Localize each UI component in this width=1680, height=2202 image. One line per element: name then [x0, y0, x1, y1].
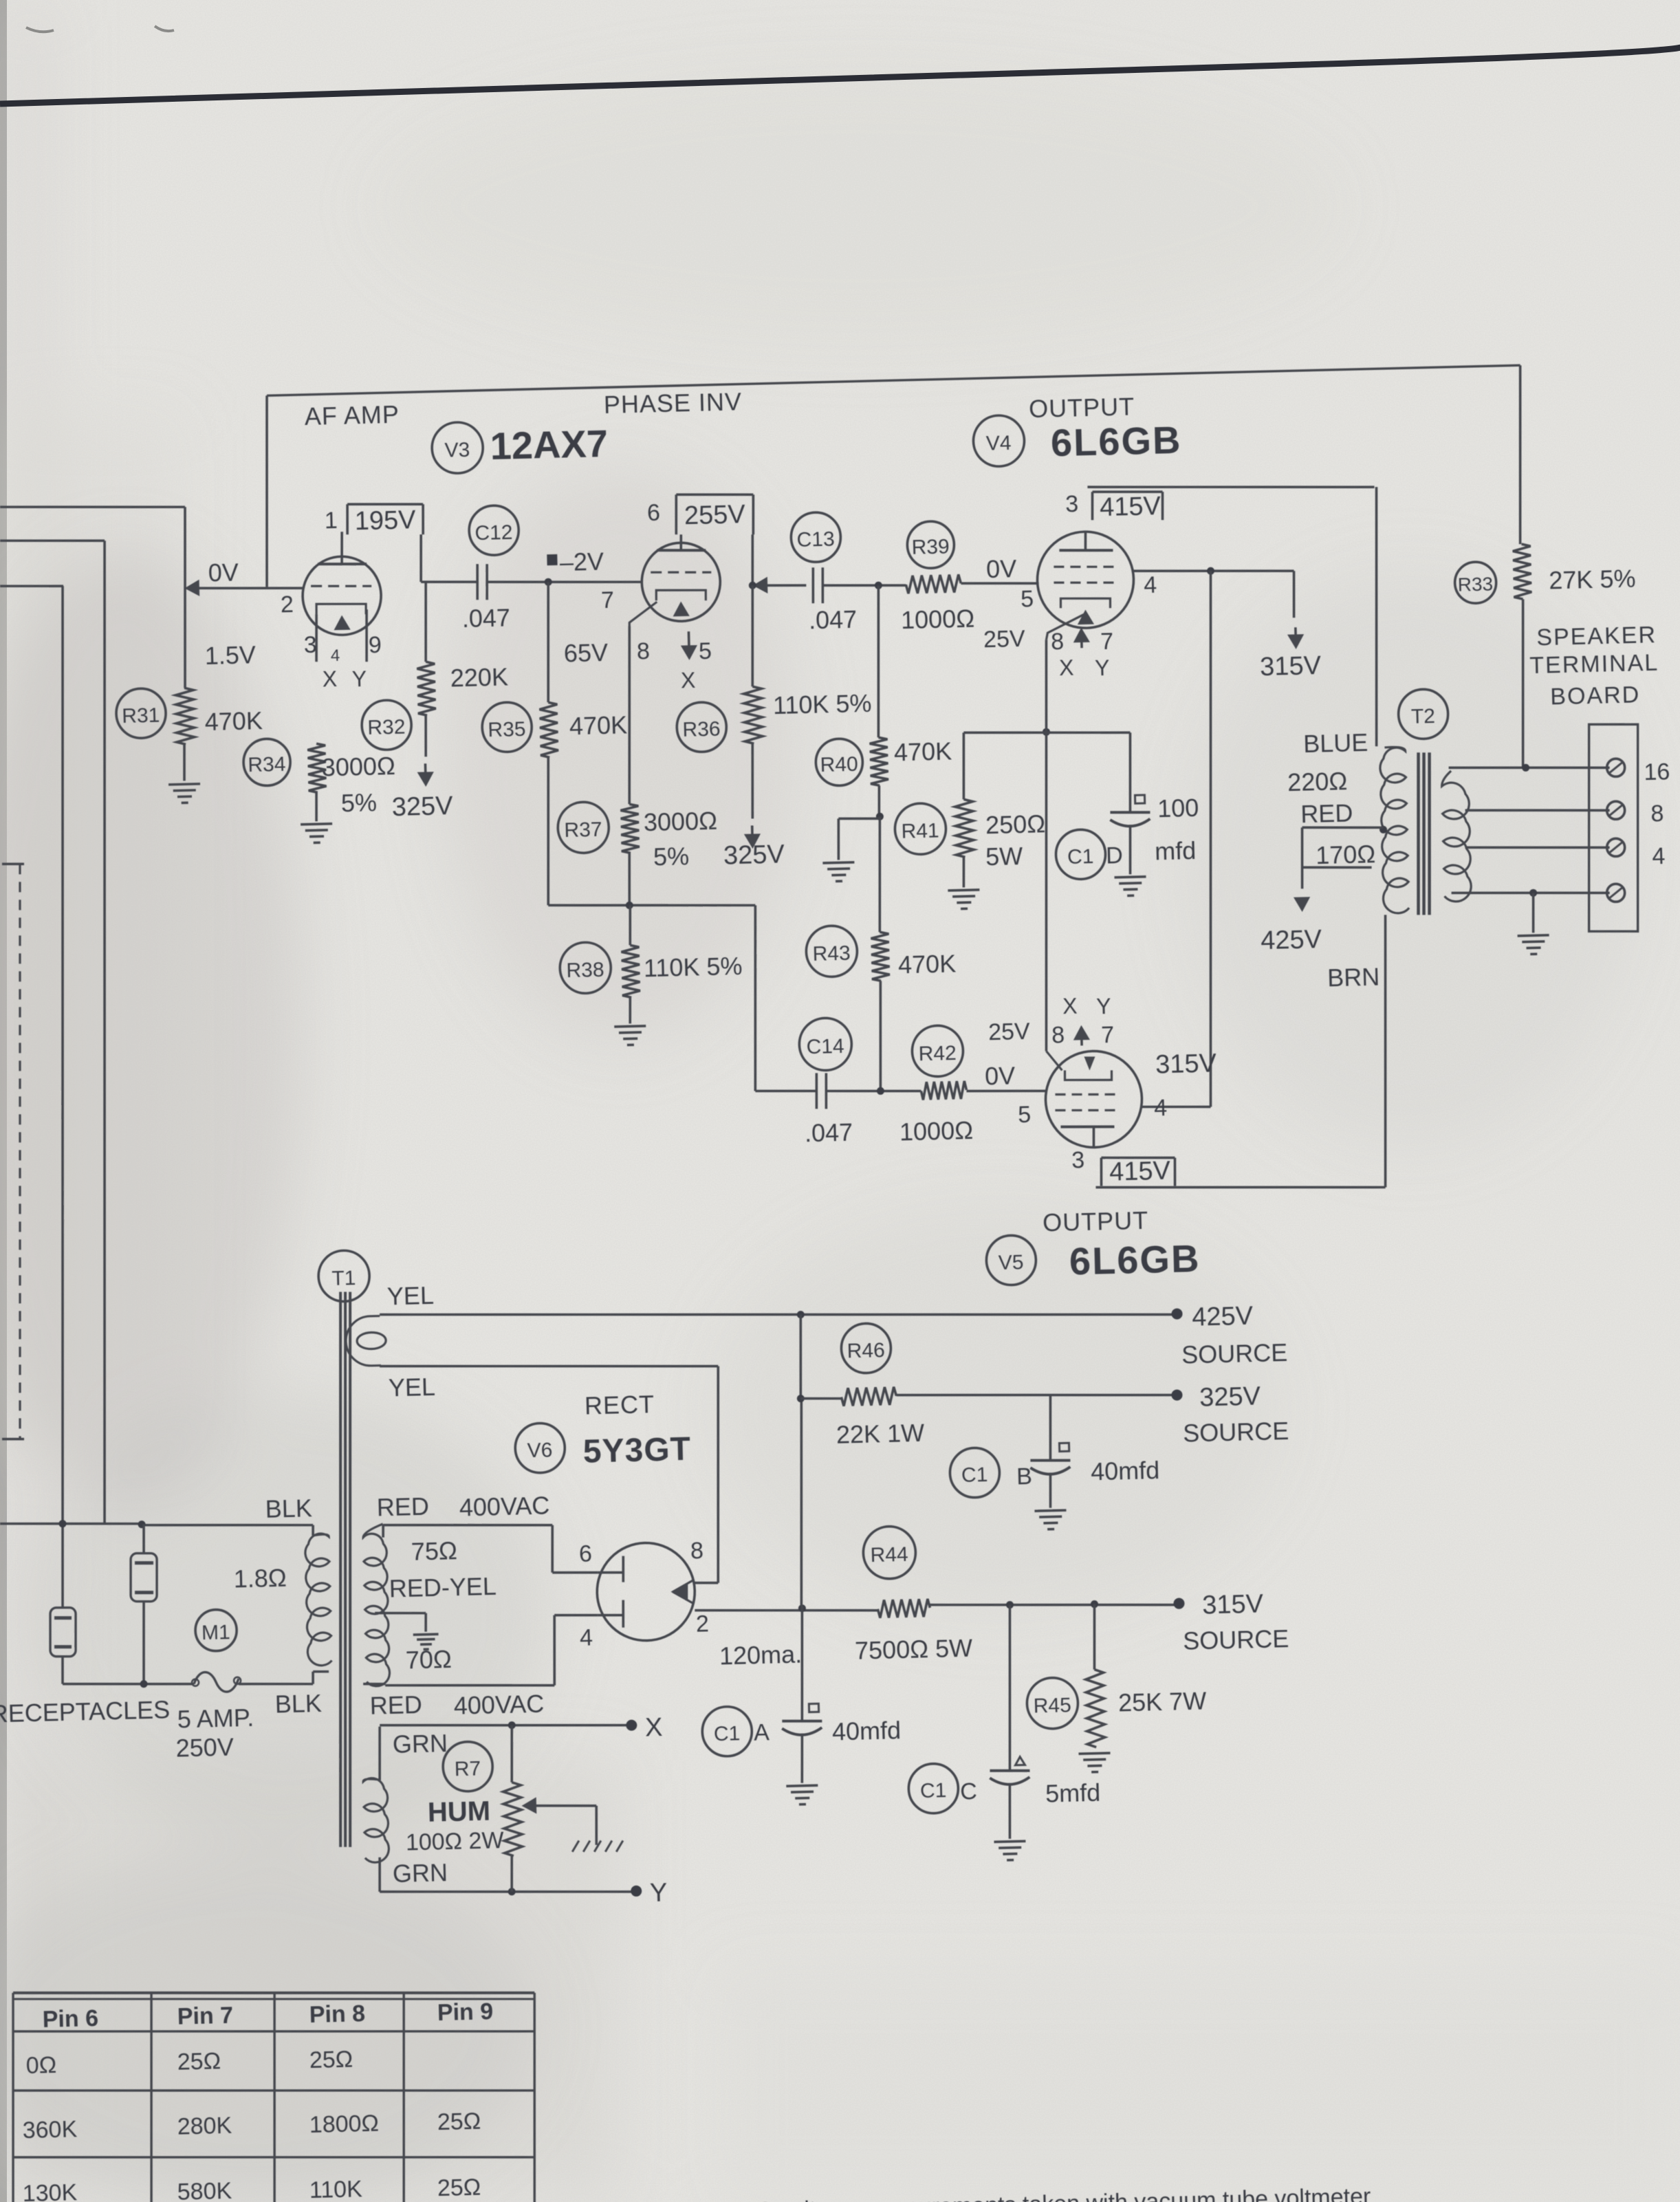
- source arrow 315V (screens): [1259, 626, 1322, 682]
- resistor R39 1000 ohm (grid stopper): [899, 521, 975, 635]
- source label 325V SOURCE: [1181, 1381, 1289, 1447]
- wire: V4 plate to T2 primary top: [1087, 480, 1382, 753]
- wire: 16 ohm tap: [1449, 762, 1610, 774]
- dashed enclosure (left edge): [0, 864, 38, 1440]
- capacitor C1 section A 40mfd: [701, 1701, 902, 1785]
- ground (C1C): [994, 1841, 1026, 1860]
- wire: V5 plate to T2 primary bottom: [1089, 915, 1392, 1194]
- T2 center tap wire + 170 ohm box: [1300, 825, 1388, 889]
- capacitor C14 .047 (coupling to V5): [754, 1018, 854, 1149]
- svg-text:0V: 0V: [208, 558, 239, 587]
- svg-text:GRN: GRN: [392, 1729, 448, 1758]
- rectifier tube V6 5Y3GT: [596, 1542, 696, 1642]
- wire: V3b plate node to C13/R36: [752, 533, 807, 591]
- svg-text:110K 5%: 110K 5%: [644, 952, 743, 982]
- wire: AC bottom bus: [62, 1651, 313, 1690]
- source label 315V SOURCE: [1181, 1589, 1289, 1655]
- resistor R36 110K 5% (plate load): [673, 579, 873, 752]
- transformer T1 5V winding (YEL): [345, 1316, 386, 1366]
- ground (R41): [948, 890, 980, 909]
- speaker terminal board: [1584, 723, 1643, 933]
- svg-text:R36: R36: [682, 718, 721, 741]
- label RECT: [585, 1390, 655, 1419]
- wire: 425V node down to C1A: [792, 1315, 810, 1721]
- svg-text:6L6GB: 6L6GB: [1069, 1236, 1201, 1283]
- section label AF AMP: [304, 400, 400, 430]
- svg-text:220Ω: 220Ω: [1287, 767, 1348, 796]
- svg-text:R34: R34: [248, 753, 286, 776]
- svg-text:3: 3: [1071, 1147, 1085, 1173]
- wire: screens bus V4-V5: [1128, 571, 1224, 1109]
- resistor R35 470K (grid return): [479, 576, 631, 906]
- svg-text:Y: Y: [1096, 994, 1111, 1019]
- triode V3a (12AX7 section A): [301, 531, 383, 663]
- svg-text:120ma.: 120ma.: [719, 1640, 803, 1670]
- transformer T2 primary winding: [1379, 747, 1409, 913]
- svg-text:5%: 5%: [653, 842, 690, 871]
- svg-text:R44: R44: [870, 1543, 908, 1567]
- svg-text:100: 100: [1157, 794, 1199, 822]
- svg-text:40mfd: 40mfd: [1091, 1456, 1160, 1485]
- transformer T1 heater winding (GRN): [362, 1727, 390, 1893]
- label RECEPTACLES: [0, 1695, 171, 1727]
- source arrow 325V (below R36): [721, 743, 785, 870]
- capacitor C12 .047 (coupling): [459, 505, 521, 633]
- svg-text:YEL: YEL: [386, 1281, 434, 1311]
- svg-text:400VAC: 400VAC: [453, 1690, 544, 1720]
- svg-text:0V: 0V: [986, 554, 1017, 583]
- resistor R31 470K: [116, 686, 264, 783]
- ground (C1B): [1034, 1510, 1067, 1529]
- svg-text:C13: C13: [796, 528, 835, 552]
- svg-text:TERMINAL: TERMINAL: [1529, 650, 1659, 679]
- svg-text:.047: .047: [809, 605, 858, 635]
- svg-text:X: X: [645, 1713, 663, 1743]
- svg-text:25V: 25V: [988, 1018, 1031, 1045]
- svg-text:5W: 5W: [985, 842, 1023, 871]
- svg-text:40mfd: 40mfd: [832, 1716, 902, 1745]
- label GRN (bottom): [392, 1858, 448, 1888]
- svg-text:315V: 315V: [1260, 651, 1322, 682]
- T1 center tap (RED-YEL) + ground: [375, 1611, 439, 1650]
- potentiometer R7 HUM 100 ohm 2W: [403, 1725, 523, 1894]
- svg-text:C14: C14: [806, 1035, 844, 1058]
- svg-text:22K 1W: 22K 1W: [836, 1419, 925, 1449]
- svg-text:BLK: BLK: [274, 1689, 322, 1719]
- svg-text:R38: R38: [566, 959, 604, 982]
- svg-text:C: C: [960, 1778, 977, 1805]
- svg-text:470K: 470K: [569, 710, 627, 740]
- wire: V3a grid (0V): [186, 556, 303, 591]
- svg-text:195V: 195V: [354, 505, 416, 536]
- svg-text:R41: R41: [901, 820, 939, 843]
- heater arrow (V4 pins 8/7): [1075, 630, 1088, 648]
- svg-text:5Y3GT: 5Y3GT: [582, 1431, 691, 1470]
- fuse 5 AMP 250V: [174, 1671, 255, 1763]
- label YEL (lower): [388, 1373, 435, 1402]
- scan fold line (top): [0, 45, 1680, 104]
- svg-text:8: 8: [1051, 629, 1065, 655]
- svg-text:RED: RED: [376, 1492, 429, 1522]
- svg-text:OUTPUT: OUTPUT: [1029, 393, 1135, 424]
- svg-text:BLK: BLK: [265, 1494, 312, 1523]
- svg-text:RED-YEL: RED-YEL: [389, 1572, 497, 1603]
- svg-text:7500Ω 5W: 7500Ω 5W: [855, 1634, 973, 1665]
- wire: input line 3 (AC): [0, 585, 88, 1609]
- svg-text:5mfd: 5mfd: [1045, 1778, 1101, 1808]
- section label OUTPUT (top): [1029, 393, 1135, 424]
- wire: T2 primary bottom lead (BRN): [0, 0, 1, 1]
- svg-text:25Ω: 25Ω: [437, 2108, 481, 2135]
- svg-text:1000Ω: 1000Ω: [899, 1116, 974, 1146]
- svg-text:A: A: [754, 1719, 770, 1746]
- svg-text:360K: 360K: [22, 2116, 78, 2144]
- source arrow 425V (T2 center tap): [1260, 897, 1380, 994]
- voltage callout 415V (V5 plate, pin 3): [1101, 1156, 1176, 1188]
- svg-text:25Ω: 25Ω: [437, 2174, 481, 2201]
- label SPEAKER TERMINAL BOARD: [1529, 622, 1660, 710]
- svg-text:SOURCE: SOURCE: [1183, 1624, 1289, 1655]
- svg-text:315V: 315V: [1202, 1589, 1264, 1620]
- wire: V3a plate to C12: [420, 533, 479, 583]
- svg-text:220K: 220K: [450, 662, 508, 692]
- svg-text:mfd: mfd: [1155, 836, 1197, 865]
- svg-text:AF AMP: AF AMP: [304, 400, 400, 430]
- svg-text:–2V: –2V: [559, 547, 604, 577]
- wire: V3b cathode to R37: [624, 602, 662, 804]
- voltage label 315V (V5 screen): [1155, 1049, 1217, 1079]
- svg-text:6L6GB: 6L6GB: [1050, 418, 1182, 465]
- wire + ground (R40/R41 junction): [821, 785, 885, 882]
- label RED-YEL: [389, 1572, 497, 1603]
- svg-text:Y: Y: [1095, 655, 1110, 681]
- svg-text:C12: C12: [474, 521, 513, 545]
- svg-text:SPEAKER: SPEAKER: [1536, 622, 1657, 651]
- svg-text:Pin 6: Pin 6: [42, 2005, 98, 2033]
- svg-text:9: 9: [368, 632, 382, 658]
- wire: heater X line: [380, 1713, 663, 1749]
- svg-text:OUTPUT: OUTPUT: [1043, 1206, 1149, 1237]
- voltage callout 195V (V3a plate, pin 1): [347, 503, 424, 536]
- svg-text:1: 1: [324, 508, 338, 534]
- svg-text:X: X: [681, 668, 696, 693]
- heater arrow pin 5 (V3b): [682, 631, 695, 657]
- label BLK (top): [265, 1494, 312, 1523]
- svg-text:X: X: [322, 666, 337, 692]
- capacitor C1 section D 100mfd (cathode bypass): [1053, 731, 1200, 880]
- svg-text:C1: C1: [713, 1722, 740, 1745]
- svg-text:250Ω: 250Ω: [985, 809, 1046, 839]
- svg-text:R45: R45: [1033, 1694, 1071, 1717]
- svg-text:16: 16: [1644, 759, 1670, 785]
- voltage flag -2V: [547, 547, 604, 577]
- svg-text:0Ω: 0Ω: [25, 2052, 56, 2079]
- svg-text:.047: .047: [461, 604, 510, 633]
- svg-text:D: D: [1106, 842, 1123, 869]
- svg-text:1000Ω: 1000Ω: [901, 604, 975, 635]
- svg-text:.047: .047: [805, 1118, 853, 1148]
- svg-text:7: 7: [1101, 1022, 1115, 1048]
- svg-text:T1: T1: [331, 1267, 356, 1290]
- svg-text:5%: 5%: [340, 788, 377, 817]
- svg-text:5: 5: [1018, 1102, 1032, 1128]
- svg-text:325V: 325V: [1199, 1382, 1261, 1412]
- triode V3b (12AX7 section B): [641, 534, 721, 622]
- transformer T2 secondary winding: [1441, 770, 1472, 902]
- svg-text:1.8Ω: 1.8Ω: [233, 1564, 287, 1593]
- svg-text:RECEPTACLES: RECEPTACLES: [0, 1695, 171, 1727]
- wire: V4 screen (pin 4) to 315V: [1132, 565, 1295, 622]
- svg-text:3000Ω: 3000Ω: [321, 752, 395, 782]
- svg-text:B: B: [1016, 1463, 1033, 1490]
- label RED 400VAC (bottom): [369, 1688, 544, 1722]
- label RED 400VAC (top): [376, 1490, 549, 1524]
- svg-text:RED: RED: [1300, 799, 1353, 829]
- svg-text:25V: 25V: [983, 626, 1026, 653]
- svg-text:325V: 325V: [723, 840, 785, 870]
- transformer T2 core: [1415, 752, 1433, 915]
- voltage callout 255V (V3b plate, pin 6): [675, 493, 754, 536]
- svg-text:SOURCE: SOURCE: [1181, 1338, 1288, 1369]
- resistor R46 22K 1W (425V to 325V): [795, 1316, 1183, 1449]
- svg-text:R7: R7: [454, 1757, 481, 1780]
- svg-text:V5: V5: [998, 1251, 1023, 1274]
- svg-text:BLUE: BLUE: [1303, 728, 1368, 758]
- label 1.8 ohm (T1 primary): [233, 1564, 287, 1593]
- svg-text:4: 4: [331, 646, 340, 665]
- R7 wiper to ground: [524, 1797, 623, 1854]
- svg-text:470K: 470K: [894, 737, 952, 766]
- svg-text:110K: 110K: [309, 2176, 362, 2202]
- svg-text:4: 4: [1144, 572, 1157, 598]
- svg-text:HUM: HUM: [427, 1796, 490, 1828]
- wire: 4 ohm tap: [1465, 844, 1610, 851]
- label BLK (bottom): [274, 1689, 322, 1719]
- resistor R40 470K (V4 grid return): [811, 584, 952, 787]
- svg-text:Y: Y: [351, 666, 367, 692]
- svg-text:315V: 315V: [1155, 1049, 1217, 1079]
- svg-text:Pin 8: Pin 8: [309, 2001, 365, 2028]
- svg-text:C1: C1: [961, 1463, 988, 1487]
- capacitor C1 section C 5mfd: [904, 1603, 1102, 1842]
- svg-text:6: 6: [647, 500, 661, 526]
- pin labels V6: [578, 1536, 803, 1674]
- wire: V4 cathode bus down to V5: [1036, 640, 1058, 1051]
- svg-text:R37: R37: [564, 818, 602, 842]
- svg-text:7: 7: [1100, 629, 1114, 655]
- resistor R37 3000 ohm 5%: [557, 799, 719, 907]
- svg-text:RED: RED: [369, 1690, 422, 1720]
- svg-text:4: 4: [1652, 843, 1666, 869]
- label 70 ohm: [405, 1645, 452, 1675]
- svg-text:3000Ω: 3000Ω: [643, 807, 717, 837]
- svg-text:PHASE INV: PHASE INV: [603, 387, 742, 419]
- tube designator V3 12AX7: [431, 419, 609, 474]
- impedance labels 16 / 8 / 4: [1644, 759, 1672, 869]
- resistor R34 3000 ohm 5% (V3a cathode): [243, 736, 396, 823]
- svg-text:2: 2: [280, 591, 294, 618]
- svg-text:8: 8: [637, 638, 651, 664]
- svg-text:100Ω 2W: 100Ω 2W: [405, 1827, 503, 1855]
- svg-text:R43: R43: [812, 942, 851, 966]
- svg-text:X: X: [1062, 994, 1078, 1019]
- svg-text:R32: R32: [367, 716, 406, 739]
- receptacle capacitor 1: [129, 1553, 160, 1684]
- svg-text:Pin 7: Pin 7: [177, 2003, 233, 2030]
- svg-text:4: 4: [580, 1624, 593, 1650]
- transformer T1 HV secondary winding: [360, 1524, 390, 1686]
- wire: C12 to V3b grid (-2V node): [487, 578, 642, 586]
- svg-text:5: 5: [699, 638, 712, 664]
- section label OUTPUT (bottom): [1043, 1206, 1149, 1237]
- wire: section box top edge / feedback line: [262, 365, 1525, 587]
- svg-text:415V: 415V: [1100, 492, 1161, 522]
- pin labels V3a: [279, 506, 383, 693]
- ground (C1D): [1115, 877, 1147, 896]
- svg-text:27K 5%: 27K 5%: [1549, 564, 1636, 594]
- transformer T2 designator: [1398, 688, 1449, 739]
- svg-text:25Ω: 25Ω: [309, 2046, 353, 2073]
- svg-text:425V: 425V: [1261, 925, 1322, 955]
- svg-text:70Ω: 70Ω: [405, 1645, 452, 1675]
- label YEL (top): [386, 1281, 434, 1311]
- svg-text:R33: R33: [1457, 574, 1493, 596]
- svg-text:R35: R35: [488, 718, 526, 741]
- resistor R38 110K 5%: [558, 899, 743, 1025]
- wire: 5Y3 pin 6 feed: [383, 1520, 598, 1578]
- resistor R41 250 ohm 5W (cathode bias): [893, 731, 1047, 889]
- voltage label 1.5V: [204, 641, 256, 671]
- wire: 315V rail from 5Y3 pin 2: [695, 1595, 1184, 1621]
- svg-text:280K: 280K: [177, 2113, 232, 2140]
- svg-text:12AX7: 12AX7: [490, 422, 609, 468]
- beam tetrode V4 (6L6GB top): [1036, 531, 1135, 640]
- pencil scribble top-left: [26, 26, 174, 32]
- tube-pin resistance table: [8, 1981, 540, 2202]
- svg-text:C1: C1: [920, 1779, 947, 1802]
- voltage label 0V (V5 grid): [985, 1061, 1016, 1090]
- wire: phase-inverter bottom bus: [548, 900, 760, 1095]
- tube designator V5 6L6GB: [986, 1231, 1201, 1285]
- resistor R32 220K (plate load to 325V): [358, 580, 510, 750]
- resistor R42 1000 ohm (V5 grid stopper): [825, 1023, 1047, 1148]
- svg-text:RECT: RECT: [585, 1390, 655, 1419]
- svg-text:5 AMP.: 5 AMP.: [177, 1703, 254, 1734]
- svg-text:7: 7: [601, 587, 615, 613]
- svg-text:325V: 325V: [391, 792, 453, 822]
- resistor R43 470K (V5 grid return): [803, 815, 959, 1093]
- svg-text:425V: 425V: [1192, 1301, 1254, 1331]
- wire: cathode node to R41 / C1D: [963, 729, 1130, 737]
- svg-text:R31: R31: [122, 704, 160, 728]
- svg-text:2: 2: [696, 1611, 710, 1637]
- svg-text:Y: Y: [650, 1878, 668, 1908]
- wire: 425V line from T1 to source dot: [380, 1295, 1183, 1338]
- svg-text:BOARD: BOARD: [1550, 682, 1641, 710]
- wire: input line 1 (to R31 / grid): [0, 503, 189, 693]
- svg-text:SOURCE: SOURCE: [1183, 1417, 1289, 1448]
- voltage callout 415V (V4 plate, pin 3): [1091, 490, 1163, 523]
- svg-text:25Ω: 25Ω: [177, 2048, 221, 2075]
- svg-text:Pin 9: Pin 9: [437, 1998, 493, 2026]
- svg-text:R39: R39: [911, 536, 950, 559]
- svg-text:8: 8: [1650, 800, 1664, 827]
- svg-text:1800Ω: 1800Ω: [309, 2110, 379, 2137]
- svg-text:1.: 1.: [686, 2198, 706, 2202]
- pin labels V5: [988, 992, 1168, 1175]
- svg-text:110K 5%: 110K 5%: [773, 689, 872, 719]
- svg-text:GRN: GRN: [392, 1858, 448, 1888]
- svg-text:YEL: YEL: [388, 1373, 435, 1402]
- pin labels V4: [980, 489, 1159, 683]
- svg-text:415V: 415V: [1109, 1156, 1171, 1186]
- label GRN (top): [392, 1729, 448, 1758]
- tube designator V4 6L6GB: [973, 411, 1183, 467]
- svg-text:3: 3: [303, 632, 317, 658]
- ground (R34): [301, 824, 333, 843]
- svg-text:1.5V: 1.5V: [204, 641, 256, 671]
- svg-text:8: 8: [1051, 1022, 1065, 1048]
- heater arrow (V5 pins 8/7): [1075, 1027, 1088, 1045]
- transformer T1 designator: [318, 1250, 370, 1302]
- note 1: DC voltage measurements: [686, 2182, 1371, 2202]
- receptacle capacitor 2: [49, 1607, 76, 1657]
- svg-text:470K: 470K: [898, 949, 957, 979]
- wire: AC line receptacle bus: [0, 1518, 146, 1556]
- svg-text:R40: R40: [820, 753, 858, 776]
- beam tetrode V5 (6L6GB bottom): [1045, 1049, 1143, 1148]
- svg-text:25K 7W: 25K 7W: [1118, 1687, 1207, 1717]
- svg-text:580K: 580K: [177, 2178, 232, 2202]
- svg-text:V3: V3: [444, 439, 470, 462]
- svg-text:C1: C1: [1067, 845, 1094, 869]
- label 75 ohm: [411, 1536, 457, 1566]
- svg-text:4: 4: [1154, 1095, 1168, 1121]
- svg-text:V6: V6: [527, 1439, 552, 1462]
- source arrow 325V (below R32): [390, 715, 454, 822]
- svg-text:8: 8: [690, 1538, 704, 1564]
- svg-text:X: X: [1059, 655, 1074, 681]
- svg-text:0V: 0V: [985, 1061, 1016, 1090]
- svg-text:R42: R42: [918, 1042, 957, 1065]
- svg-text:M1: M1: [201, 1621, 230, 1644]
- svg-text:5: 5: [1021, 586, 1034, 612]
- wire: YEL to 5Y3 filament (pin 8): [380, 1358, 723, 1591]
- svg-text:V4: V4: [985, 432, 1011, 455]
- section label PHASE INV: [603, 387, 742, 419]
- svg-text:T2: T2: [1411, 705, 1436, 728]
- svg-text:65V: 65V: [563, 638, 608, 668]
- svg-text:75Ω: 75Ω: [411, 1536, 457, 1566]
- T2 labels BLUE / 220ohm / RED: [1286, 728, 1370, 829]
- ground (R31): [168, 784, 201, 803]
- source label 425V SOURCE: [1180, 1300, 1287, 1369]
- svg-text:R46: R46: [847, 1339, 885, 1362]
- node arrow: feedback into 0V grid wire: [187, 582, 198, 594]
- svg-text:6: 6: [579, 1540, 593, 1567]
- svg-text:470K: 470K: [204, 706, 263, 736]
- wire: 8 ohm tap: [1465, 807, 1610, 814]
- svg-text:255V: 255V: [684, 500, 745, 530]
- svg-text:BRN: BRN: [1327, 963, 1380, 992]
- wire: input line 2 (AC): [0, 538, 129, 1527]
- svg-text:130K: 130K: [22, 2179, 78, 2202]
- resistor R33 27K 5% (feedback): [1454, 541, 1640, 769]
- meter jack M1: [195, 1609, 237, 1651]
- resistor R44 7500 ohm 5W: [852, 1525, 973, 1665]
- transformer T1 primary winding: [142, 1520, 332, 1688]
- wire: HV secondary bottom to 5Y3 pin 4: [384, 1614, 600, 1689]
